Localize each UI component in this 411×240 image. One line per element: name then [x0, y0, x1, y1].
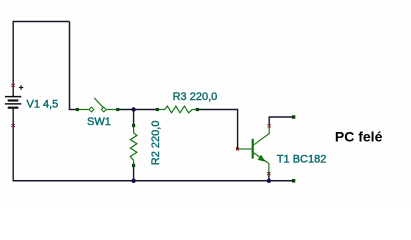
wire end square top right: [292, 115, 295, 118]
wire top rail: [13, 21, 69, 23]
transistor T1 base pin red dashes: [236, 147, 239, 151]
wire left vertical upper (battery top lead): [12, 21, 14, 97]
transistor T1 base lead: [238, 148, 252, 150]
switch SW1 right contact diamond: [101, 107, 106, 112]
transistor T1 collector pin red dashes: [267, 124, 271, 127]
resistor R2: [130, 126, 137, 166]
wire stub to switch left pin: [69, 109, 78, 111]
switch SW1 pin squares: [76, 108, 79, 111]
junction node A (switch/R2/R3): [131, 107, 135, 111]
wire junction A to R3: [134, 109, 158, 111]
resistor R3: [157, 106, 197, 113]
battery plus sign: [19, 85, 23, 89]
transistor T1 collector: [254, 126, 269, 145]
svg-text:PC felé: PC felé: [335, 128, 383, 144]
wire emitter stub down: [268, 173, 270, 181]
switch SW1: [77, 98, 117, 110]
wire switch to junction A: [118, 109, 134, 111]
wire bottom rail: [13, 180, 293, 182]
junction node bottom right (emitter/rail): [267, 179, 271, 183]
wire end square bottom right: [292, 179, 295, 182]
wire R3 to corner: [197, 109, 237, 111]
junction node bottom left (R2/rail): [131, 179, 135, 183]
transistor T1 emitter pin red dashes: [267, 172, 271, 175]
battery bottom pin red dashes: [11, 124, 15, 127]
transistor T1 emitter: [254, 153, 269, 173]
battery top pin red dashes: [11, 84, 15, 87]
wire left vertical lower (battery bottom lead): [12, 108, 14, 181]
battery V1 plates: [5, 97, 21, 108]
svg-text:R3 220,0: R3 220,0: [173, 91, 218, 103]
svg-text:R2 220,0: R2 220,0: [150, 121, 162, 166]
transistor T1 base bar: [252, 139, 254, 159]
switch SW1 left contact diamond: [89, 107, 94, 112]
transistor T1 emitter arrow: [258, 155, 265, 161]
resistor R2 pin squares: [132, 124, 135, 127]
svg-text:T1 BC182: T1 BC182: [277, 153, 327, 165]
wire loop right vertical: [69, 22, 71, 110]
wire R2 bottom stub: [133, 167, 135, 181]
wire collector to top-right pin: [269, 117, 293, 126]
svg-text:SW1: SW1: [87, 116, 111, 128]
wire corner down to base: [237, 109, 239, 150]
svg-text:V1 4,5: V1 4,5: [27, 99, 59, 111]
wire R2 top stub: [133, 110, 135, 125]
resistor R3 pin squares: [156, 108, 159, 111]
